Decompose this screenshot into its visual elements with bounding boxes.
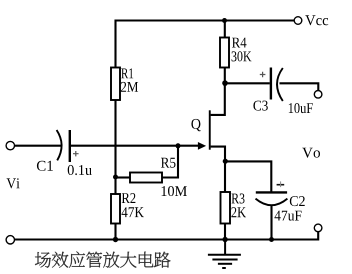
wire C2 branch top: [225, 161, 271, 192]
transistor Q gate arrow: [198, 142, 206, 150]
resistor R4: [220, 38, 229, 68]
label R4: [232, 38, 247, 48]
wire left vertical R1-R2: [114, 100, 116, 194]
polarity plus C2: [277, 184, 285, 186]
wire C2 bottom: [270, 205, 272, 241]
terminal Vcc: [294, 17, 302, 25]
label C2: [290, 196, 305, 206]
junction dot divider/R5: [113, 175, 118, 180]
capacitor C3: [260, 68, 283, 102]
wire R5 right up to gate: [162, 146, 178, 178]
capacitor C2: [256, 181, 288, 205]
junction dot gate/R5: [176, 143, 181, 148]
wire C3 left: [225, 82, 270, 84]
capacitor C1: [57, 130, 79, 162]
junction dot drain/C3: [222, 80, 228, 86]
label Vcc: [305, 15, 328, 25]
value 10M: [162, 186, 187, 196]
wire gate line: [70, 145, 199, 147]
wire input: [14, 145, 62, 147]
wire R5 left: [116, 176, 131, 178]
resistor R1: [111, 68, 120, 101]
terminal ground left: [6, 236, 14, 244]
label C3: [253, 101, 267, 111]
label Q: [191, 119, 200, 131]
label R3: [232, 194, 245, 204]
wire drain: [211, 68, 225, 115]
label Vi: [7, 178, 20, 188]
label R1: [121, 68, 133, 78]
value 0.1u: [68, 165, 92, 175]
wire R4 top: [224, 21, 226, 38]
terminal output bottom: [314, 224, 322, 232]
label C1: [37, 161, 53, 171]
value 10uF: [289, 103, 313, 113]
junction dot rail R2: [113, 237, 118, 242]
ground: [208, 240, 241, 269]
value 30K: [232, 51, 252, 61]
resistor R2: [111, 194, 120, 224]
wire top rail: [116, 21, 295, 68]
polarity plus C3: [260, 72, 266, 77]
resistor R5: [130, 173, 162, 183]
wire R2 bottom: [114, 224, 116, 241]
value 2K: [231, 207, 246, 217]
wire source: [211, 147, 225, 192]
value 47uF: [275, 211, 302, 221]
wire R3 bottom: [224, 224, 226, 241]
junction dot rail R3: [222, 237, 227, 242]
junction dot source/C2: [223, 159, 228, 164]
label R2: [122, 193, 136, 203]
transistor Q JFET bar: [209, 110, 211, 149]
junction dot top rail: [222, 18, 227, 23]
label R5: [161, 158, 176, 168]
terminal input Vi: [6, 141, 14, 149]
polarity plus C1: [73, 151, 79, 156]
terminal output top: [314, 91, 322, 99]
wire C3 right to terminal: [280, 83, 319, 90]
resistor R3: [221, 192, 231, 224]
caption 场效应管放大电路: [35, 252, 171, 268]
wire bottom rail: [14, 232, 318, 240]
junction dot rail C2: [269, 237, 274, 242]
value 47K: [122, 207, 144, 217]
node Vo label: [302, 148, 320, 158]
value 2M: [121, 82, 138, 92]
